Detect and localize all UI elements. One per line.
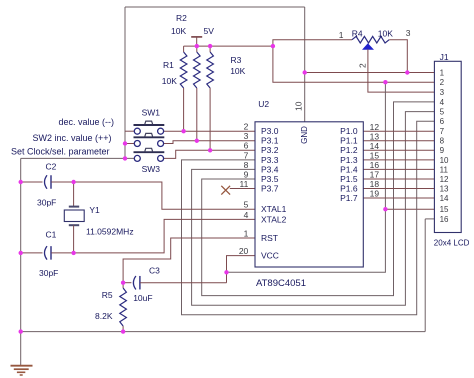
svg-text:15: 15 <box>370 150 380 160</box>
svg-text:VCC: VCC <box>261 251 279 261</box>
svg-text:10: 10 <box>294 101 304 111</box>
svg-text:7: 7 <box>244 150 249 160</box>
svg-text:14: 14 <box>370 141 380 151</box>
svg-text:8: 8 <box>244 160 249 170</box>
svg-text:14: 14 <box>440 194 449 203</box>
svg-text:3: 3 <box>440 88 445 97</box>
svg-text:15: 15 <box>440 205 449 214</box>
svg-text:GND: GND <box>300 126 309 144</box>
svg-text:11.0592MHz: 11.0592MHz <box>86 226 134 236</box>
svg-text:4: 4 <box>440 98 445 107</box>
svg-text:RST: RST <box>261 233 278 243</box>
svg-text:30pF: 30pF <box>37 198 56 208</box>
svg-text:R1: R1 <box>163 60 174 70</box>
svg-text:13: 13 <box>370 131 380 141</box>
svg-text:3: 3 <box>244 131 249 141</box>
svg-text:5: 5 <box>440 108 445 117</box>
svg-text:19: 19 <box>370 189 380 199</box>
svg-text:P1.4: P1.4 <box>340 164 358 174</box>
svg-text:C2: C2 <box>46 162 57 172</box>
svg-text:J1: J1 <box>440 52 449 62</box>
svg-text:Y1: Y1 <box>89 205 100 215</box>
svg-text:P3.4: P3.4 <box>261 164 279 174</box>
svg-text:16: 16 <box>370 160 380 170</box>
svg-text:3: 3 <box>406 28 411 38</box>
svg-text:17: 17 <box>370 170 380 180</box>
svg-text:P3.7: P3.7 <box>261 183 279 193</box>
svg-text:2: 2 <box>244 122 249 132</box>
svg-text:C3: C3 <box>149 266 160 276</box>
svg-text:1: 1 <box>440 68 445 77</box>
svg-text:10K: 10K <box>378 28 393 38</box>
svg-text:P1.3: P1.3 <box>340 155 358 165</box>
svg-text:1: 1 <box>339 30 344 40</box>
svg-text:5V: 5V <box>204 26 215 36</box>
svg-text:5: 5 <box>244 200 249 210</box>
svg-text:10K: 10K <box>162 76 177 86</box>
svg-text:20x4 LCD: 20x4 LCD <box>434 239 470 248</box>
svg-text:P1.2: P1.2 <box>340 145 358 155</box>
svg-text:30pF: 30pF <box>39 268 58 278</box>
svg-text:XTAL2: XTAL2 <box>261 214 287 224</box>
svg-text:9: 9 <box>440 146 445 155</box>
svg-text:P3.2: P3.2 <box>261 145 279 155</box>
svg-text:P3.3: P3.3 <box>261 155 279 165</box>
svg-text:2: 2 <box>358 63 368 68</box>
svg-text:P1.7: P1.7 <box>340 193 358 203</box>
svg-text:20: 20 <box>239 246 249 256</box>
svg-text:P3.1: P3.1 <box>261 136 279 146</box>
svg-text:P3.5: P3.5 <box>261 174 279 184</box>
svg-text:10: 10 <box>440 156 449 165</box>
svg-text:U2: U2 <box>258 99 269 109</box>
svg-text:Set Clock/sel. parameter: Set Clock/sel. parameter <box>11 147 110 157</box>
svg-text:P1.5: P1.5 <box>340 174 358 184</box>
svg-text:11: 11 <box>239 179 248 189</box>
svg-text:9: 9 <box>244 169 249 179</box>
svg-text:12: 12 <box>370 122 380 132</box>
svg-text:16: 16 <box>440 215 449 224</box>
svg-text:SW3: SW3 <box>142 164 161 174</box>
svg-text:10uF: 10uF <box>133 293 152 303</box>
svg-text:12: 12 <box>440 175 449 184</box>
svg-text:1: 1 <box>244 228 249 238</box>
svg-text:P3.0: P3.0 <box>261 126 279 136</box>
svg-text:C1: C1 <box>46 230 57 240</box>
svg-text:R5: R5 <box>102 290 113 300</box>
svg-text:R2: R2 <box>176 13 187 23</box>
svg-text:10K: 10K <box>230 66 245 76</box>
svg-text:P1.6: P1.6 <box>340 183 358 193</box>
svg-text:11: 11 <box>440 165 449 174</box>
svg-text:18: 18 <box>370 179 380 189</box>
svg-text:7: 7 <box>440 127 445 136</box>
svg-text:2: 2 <box>440 78 445 87</box>
svg-text:R3: R3 <box>231 55 242 65</box>
svg-text:6: 6 <box>244 141 249 151</box>
svg-text:8: 8 <box>440 137 445 146</box>
svg-text:R4: R4 <box>352 28 363 38</box>
svg-text:8.2K: 8.2K <box>95 311 113 321</box>
svg-text:4: 4 <box>244 210 249 220</box>
svg-text:10K: 10K <box>171 26 186 36</box>
svg-text:SW1: SW1 <box>142 108 161 118</box>
svg-text:XTAL1: XTAL1 <box>261 204 287 214</box>
svg-text:6: 6 <box>440 117 445 126</box>
svg-text:P1.0: P1.0 <box>340 126 358 136</box>
svg-text:SW2 inc. value (++): SW2 inc. value (++) <box>32 133 111 143</box>
svg-text:AT89C4051: AT89C4051 <box>256 278 306 289</box>
svg-text:13: 13 <box>440 184 449 193</box>
svg-text:P1.1: P1.1 <box>340 136 358 146</box>
svg-text:dec. value (--): dec. value (--) <box>58 117 114 127</box>
